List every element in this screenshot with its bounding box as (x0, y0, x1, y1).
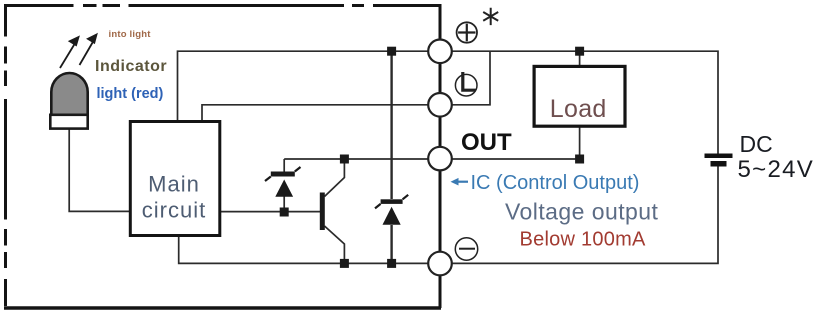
svg-text:Below 100mA: Below 100mA (520, 229, 647, 251)
svg-text:light (red): light (red) (97, 86, 164, 102)
svg-text:into light: into light (109, 29, 152, 40)
svg-text:Indicator: Indicator (95, 58, 167, 75)
svg-text:OUT: OUT (461, 129, 512, 156)
svg-text:circuit: circuit (142, 197, 206, 222)
svg-text:DC: DC (740, 131, 773, 157)
svg-text:Voltage output: Voltage output (505, 198, 659, 224)
svg-text:5~24V: 5~24V (738, 156, 815, 183)
svg-text:Load: Load (550, 95, 607, 123)
svg-text:IC (Control Output): IC (Control Output) (471, 172, 640, 194)
svg-text:Main: Main (148, 172, 200, 197)
